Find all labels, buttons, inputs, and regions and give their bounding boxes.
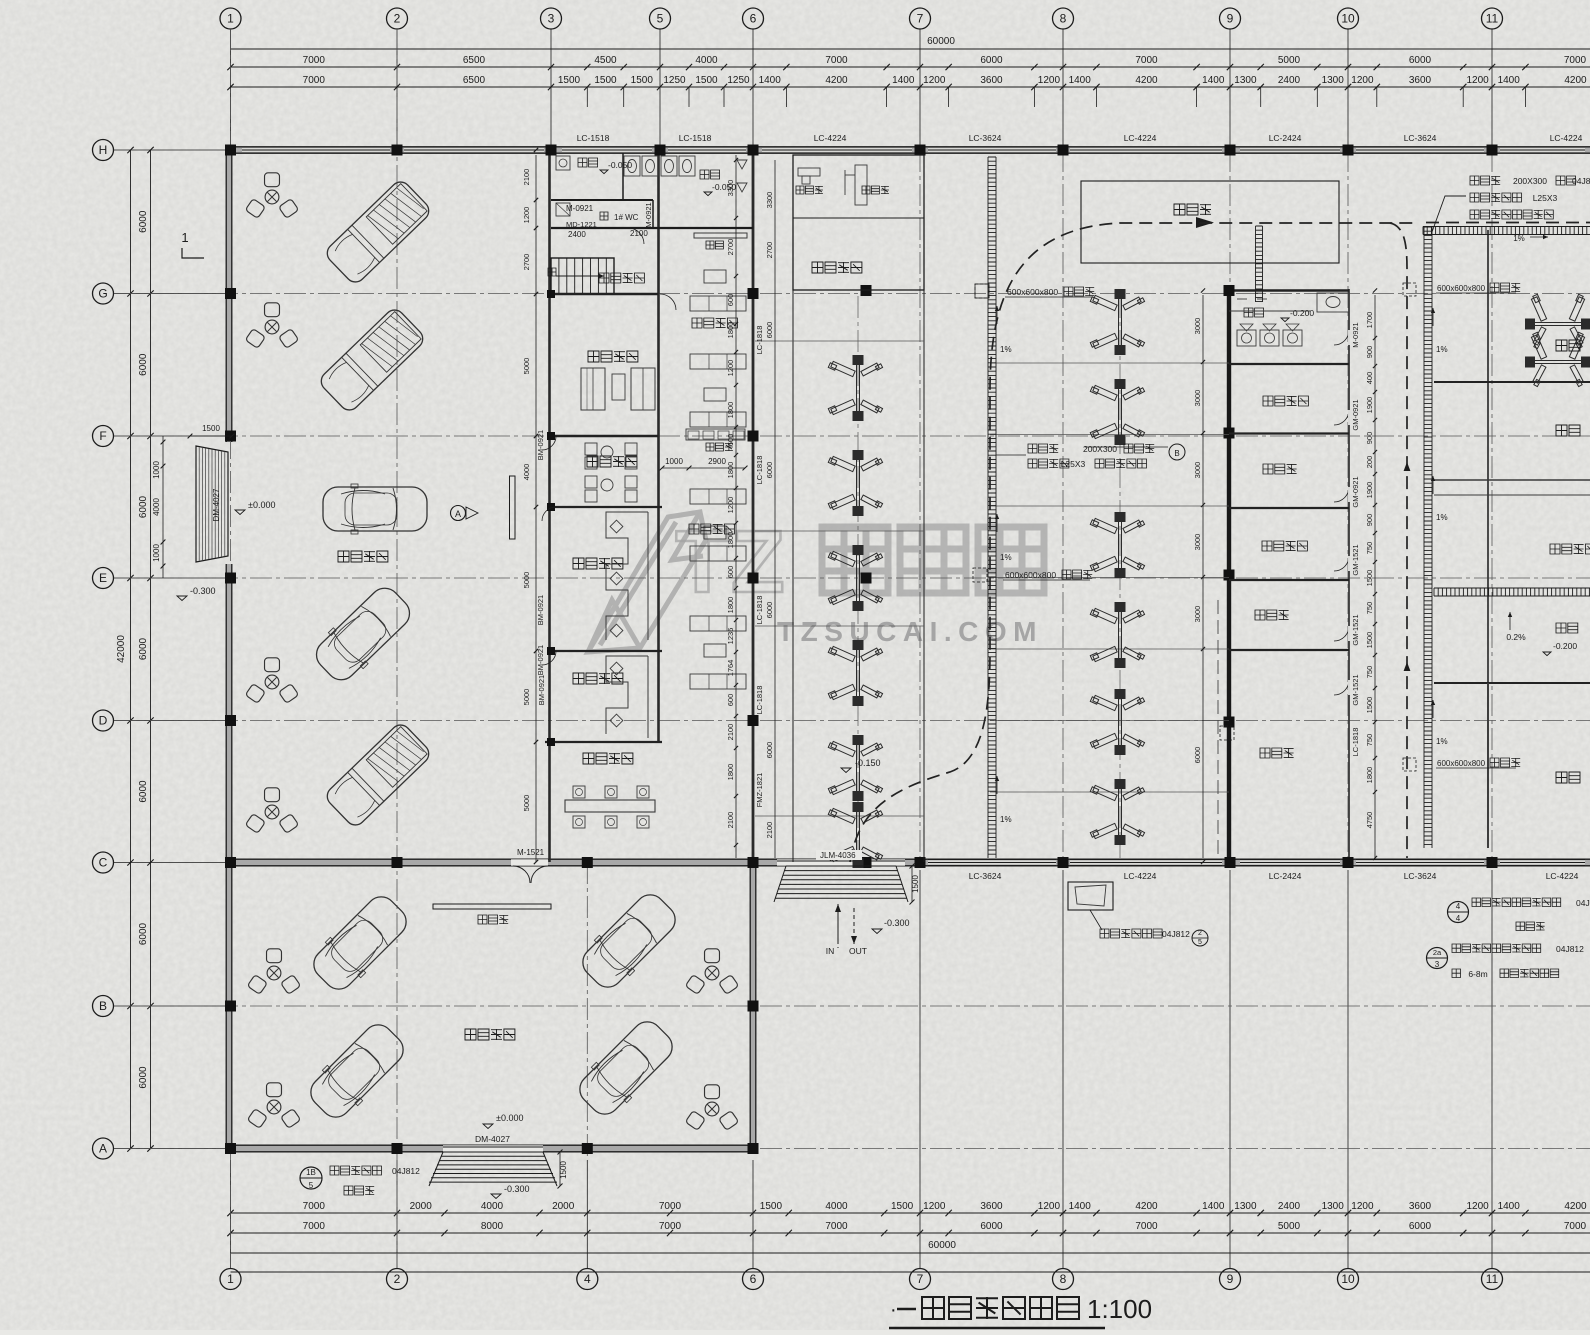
svg-text:7000: 7000: [1135, 1221, 1158, 1232]
top dimension boundary ticks: [227, 64, 233, 70]
tool room label: [1263, 464, 1297, 474]
svg-text:-0.200: -0.200: [1553, 641, 1577, 651]
svg-text:G: G: [98, 287, 107, 301]
svg-text:6000: 6000: [765, 322, 774, 339]
svg-text:2400: 2400: [1278, 75, 1301, 86]
svg-text:LC-1518: LC-1518: [679, 133, 712, 143]
assembly repair label: [1262, 541, 1307, 551]
top exterior wall: [226, 147, 1590, 154]
svg-text:1B: 1B: [306, 1168, 316, 1177]
svg-text:600x600x800: 600x600x800: [1005, 570, 1056, 580]
svg-text:2a: 2a: [1433, 948, 1442, 957]
svg-text:04J812: 04J812: [1556, 944, 1584, 954]
svg-text:6000: 6000: [980, 1221, 1003, 1232]
test line rectangle: [1081, 181, 1339, 263]
svg-text:600x600x800: 600x600x800: [1437, 284, 1486, 293]
top wall windows: [242, 147, 390, 153]
column line 6 glass wall: [752, 150, 755, 862]
bottom wall of lower showroom: [226, 1145, 756, 1152]
svg-text:1: 1: [227, 12, 234, 26]
svg-text:5000: 5000: [522, 572, 531, 589]
wc labels: [578, 158, 598, 167]
svg-text:3000: 3000: [1193, 318, 1202, 335]
svg-text:3300: 3300: [726, 180, 735, 197]
svg-text:4750: 4750: [1365, 812, 1374, 829]
service room strip west wall x1229: [1227, 289, 1231, 862]
svg-text:5000: 5000: [522, 689, 531, 706]
svg-text:7000: 7000: [1564, 55, 1587, 66]
svg-text:B: B: [1174, 449, 1179, 458]
svg-text:1700: 1700: [1365, 312, 1374, 329]
toilet stalls: [624, 156, 640, 176]
svg-text:1500: 1500: [1365, 697, 1374, 714]
svg-text:04J812: 04J812: [392, 1166, 420, 1176]
svg-text:LC-1518: LC-1518: [577, 133, 610, 143]
svg-text:4200: 4200: [1564, 75, 1587, 86]
svg-text:7000: 7000: [303, 1201, 326, 1212]
svg-text:7000: 7000: [1564, 1221, 1587, 1232]
svg-text:GM-0921: GM-0921: [1351, 399, 1360, 430]
showroom car 1: [323, 178, 433, 286]
svg-text:1400: 1400: [1498, 75, 1521, 86]
svg-text:1000: 1000: [665, 457, 683, 466]
svg-text:2700: 2700: [522, 254, 531, 271]
south wall windows: [928, 860, 1056, 866]
svg-text:4000: 4000: [522, 464, 531, 481]
svg-text:4000: 4000: [481, 1201, 504, 1212]
top overall dimension 60000: [231, 48, 1590, 50]
svg-text:9: 9: [1227, 12, 1234, 26]
svg-text:6000: 6000: [765, 742, 774, 759]
svg-text:1200: 1200: [726, 360, 735, 377]
svg-text:600x600x800: 600x600x800: [1007, 287, 1058, 297]
svg-text:9: 9: [1227, 1272, 1234, 1286]
rest room label: [1263, 396, 1308, 406]
reception counter and chairs: [565, 800, 655, 812]
column markers row C: [225, 857, 236, 868]
svg-text:1800: 1800: [1365, 767, 1374, 784]
svg-text:2100: 2100: [726, 812, 735, 829]
svg-text:TZSUCAI.COM: TZSUCAI.COM: [777, 616, 1043, 647]
svg-text:3: 3: [1435, 960, 1440, 969]
strip room dimension line x536: [535, 155, 537, 862]
drain note mid: [1028, 444, 1058, 453]
svg-text:60000: 60000: [927, 36, 955, 47]
svg-text:750: 750: [1365, 734, 1374, 747]
svg-text:1900: 1900: [1365, 482, 1374, 499]
svg-text:DM-4027: DM-4027: [475, 1134, 510, 1144]
customer lounge sofas: [581, 368, 605, 410]
lower chair groups: [247, 949, 301, 995]
svg-text:1200: 1200: [1466, 75, 1489, 86]
svg-text:2900: 2900: [708, 457, 726, 466]
grid bubbles bottom: [220, 1269, 241, 1290]
svg-text:1500: 1500: [1365, 632, 1374, 649]
service strip room walls: [1229, 363, 1349, 365]
svg-text:200: 200: [1365, 456, 1374, 469]
svg-text:4200: 4200: [1564, 1201, 1587, 1212]
wc sinks: [556, 156, 570, 170]
lower showroom cars: [306, 889, 415, 998]
svg-text:FMZ-1821: FMZ-1821: [755, 773, 764, 808]
strip wall junction squares: [547, 290, 555, 298]
column markers top wall: [225, 145, 236, 156]
horizontal grid centerlines: [114, 293, 1590, 295]
showroom label xin che zhan ting: [338, 551, 388, 562]
svg-text:GM-0921: GM-0921: [1351, 476, 1360, 507]
showroom office strip east wall: [657, 150, 660, 742]
svg-text:IN: IN: [826, 946, 835, 956]
svg-text:M-1521: M-1521: [517, 848, 545, 857]
svg-text:1400: 1400: [892, 75, 915, 86]
east slope arrows: [1432, 308, 1434, 326]
svg-text:1400: 1400: [1498, 1201, 1521, 1212]
svg-text:3600: 3600: [980, 75, 1003, 86]
svg-text:1200: 1200: [1038, 75, 1061, 86]
svg-text:1200: 1200: [1038, 1201, 1061, 1212]
service strip doors: [1334, 330, 1349, 345]
svg-text:4: 4: [1456, 914, 1461, 923]
svg-text:1: 1: [181, 230, 188, 245]
svg-text:6000: 6000: [138, 495, 149, 518]
svg-text:1300: 1300: [1322, 1201, 1345, 1212]
svg-text:TZ: TZ: [675, 512, 787, 611]
showroom car 3: [323, 484, 427, 534]
svg-text:2100: 2100: [765, 822, 774, 839]
svg-text:BM-0921: BM-0921: [536, 595, 545, 625]
short trench x1259: [1255, 226, 1257, 302]
lower showroom label: [465, 1029, 515, 1040]
svg-text:1200: 1200: [522, 207, 531, 224]
bottom dimension line spans: [231, 1232, 1590, 1234]
grid bubbles top: [220, 8, 241, 29]
svg-text:7000: 7000: [1135, 55, 1158, 66]
svg-text:7000: 7000: [303, 55, 326, 66]
service room strip east wall x1349: [1348, 289, 1350, 862]
svg-text:M-0921: M-0921: [644, 202, 653, 227]
svg-text:6500: 6500: [463, 55, 486, 66]
svg-text:04J8: 04J8: [1576, 898, 1590, 908]
tyre machine: [855, 165, 867, 205]
svg-text:B: B: [99, 999, 107, 1013]
test line arrow: [1196, 217, 1214, 228]
paint room walls: [1487, 683, 1489, 848]
svg-text:1250: 1250: [663, 75, 686, 86]
grid bubbles left letters: [93, 140, 114, 161]
left overall dimension 42000: [130, 150, 132, 1149]
svg-text:GM-1521: GM-1521: [1351, 614, 1360, 645]
svg-text:C: C: [99, 856, 108, 870]
svg-text:4000: 4000: [695, 55, 718, 66]
svg-text:11: 11: [1486, 1272, 1499, 1286]
svg-text:5: 5: [657, 12, 664, 26]
test line label: [1174, 204, 1211, 215]
east lifts: [1525, 294, 1590, 348]
roller door DM-4027: [196, 446, 228, 562]
svg-text:LC-2424: LC-2424: [1269, 133, 1302, 143]
air compressor label: [1255, 610, 1289, 620]
sales meeting room label: [587, 456, 637, 467]
after-sales lounge label: [692, 318, 737, 328]
sales office 2 label: [573, 673, 623, 684]
svg-text:LC-1818: LC-1818: [755, 326, 764, 355]
svg-text:1%: 1%: [1513, 234, 1525, 243]
svg-text:1500: 1500: [559, 1161, 568, 1179]
svg-text:4500: 4500: [594, 55, 617, 66]
main entrance steps: [786, 865, 896, 867]
svg-text:1400: 1400: [1202, 1201, 1225, 1212]
svg-text:LC-1818: LC-1818: [755, 596, 764, 625]
svg-text:1000: 1000: [152, 544, 161, 562]
svg-text:6000: 6000: [138, 780, 149, 803]
svg-text:600x600x800: 600x600x800: [1437, 759, 1486, 768]
svg-text:6000: 6000: [1409, 1221, 1432, 1232]
stair flight: [551, 258, 614, 294]
east area wall x1488: [1487, 230, 1489, 848]
svg-text:7: 7: [917, 1272, 924, 1286]
svg-text:1764: 1764: [726, 660, 735, 677]
vertical grid centerlines: [230, 29, 232, 1268]
svg-text:1200: 1200: [1466, 1201, 1489, 1212]
svg-text:6500: 6500: [463, 75, 486, 86]
internet corner desk: [686, 429, 745, 440]
drain note top right: [1470, 176, 1500, 185]
left exterior wall: [226, 150, 232, 442]
sales office 2 desks: [606, 656, 648, 738]
wall under stairs row G: [551, 293, 658, 295]
drain trench vertical x992: [987, 157, 989, 858]
svg-text:750: 750: [1365, 666, 1374, 679]
showroom car 5: [323, 721, 433, 829]
svg-text:1236: 1236: [726, 628, 735, 645]
svg-text:M-0921: M-0921: [566, 204, 594, 213]
svg-text:2700: 2700: [726, 239, 735, 256]
sand pit label top: [975, 284, 989, 298]
svg-text:8000: 8000: [481, 1221, 504, 1232]
in out arrows: [837, 904, 839, 940]
svg-text:600: 600: [726, 434, 735, 447]
svg-text:6: 6: [750, 12, 757, 26]
svg-text:1500: 1500: [891, 1201, 914, 1212]
left grid extension lines: [114, 149, 226, 151]
svg-text:3600: 3600: [1409, 75, 1432, 86]
svg-text:10: 10: [1341, 12, 1355, 26]
svg-text:7000: 7000: [659, 1201, 682, 1212]
svg-text:1: 1: [227, 1272, 234, 1286]
svg-text:2100: 2100: [630, 229, 648, 238]
svg-text:6000: 6000: [980, 55, 1003, 66]
sand pit label east bottom: [1403, 758, 1416, 771]
column markers left wall: [225, 288, 236, 299]
svg-text:1250: 1250: [727, 75, 750, 86]
svg-text:3000: 3000: [1193, 534, 1202, 551]
svg-text:GM-1521: GM-1521: [1351, 544, 1360, 575]
svg-text:10: 10: [1341, 1272, 1355, 1286]
svg-text:1500: 1500: [594, 75, 617, 86]
svg-text:1%: 1%: [1000, 345, 1012, 354]
svg-text:1500: 1500: [1365, 570, 1374, 587]
svg-text:2000: 2000: [410, 1201, 433, 1212]
car lifts column 2: [1090, 289, 1144, 355]
svg-text:3300: 3300: [765, 192, 774, 209]
svg-text:1500: 1500: [695, 75, 718, 86]
svg-text:400: 400: [1365, 372, 1374, 385]
service bay lines: [792, 290, 794, 862]
svg-text:1500: 1500: [911, 875, 920, 893]
showroom office strip west wall: [548, 150, 551, 862]
svg-text:1400: 1400: [1069, 75, 1092, 86]
svg-text:600: 600: [726, 566, 735, 579]
svg-text:3000: 3000: [1193, 606, 1202, 623]
svg-text:2000: 2000: [552, 1201, 575, 1212]
svg-text:LC-1818: LC-1818: [755, 456, 764, 485]
sand pit mid-south dashed line: [1217, 600, 1219, 858]
entrance steps south: [443, 1151, 543, 1153]
svg-text:8: 8: [1060, 12, 1067, 26]
svg-text:F: F: [99, 429, 106, 443]
svg-text:6000: 6000: [138, 922, 149, 945]
svg-text:4200: 4200: [1135, 75, 1158, 86]
svg-text:900: 900: [1365, 514, 1374, 527]
svg-text:1200: 1200: [1351, 75, 1374, 86]
bottom overall dimension 60000: [231, 1252, 1590, 1254]
svg-text:6000: 6000: [138, 1066, 149, 1089]
wheel alignment room label: [812, 262, 862, 273]
svg-text:4200: 4200: [825, 75, 848, 86]
svg-text:5000: 5000: [522, 358, 531, 375]
svg-text:·: ·: [890, 1299, 897, 1321]
svg-text:LC-1818: LC-1818: [755, 686, 764, 715]
svg-text:A: A: [99, 1142, 107, 1156]
svg-text:42000: 42000: [116, 635, 127, 663]
svg-text:2400: 2400: [1278, 1201, 1301, 1212]
svg-text:LC-4224: LC-4224: [1550, 133, 1583, 143]
svg-text:200X300: 200X300: [1083, 444, 1117, 454]
svg-text:1800: 1800: [726, 402, 735, 419]
wheel balancer: [798, 168, 820, 176]
svg-text:3000: 3000: [1193, 462, 1202, 479]
strip wall y742: [545, 741, 662, 743]
svg-text:7000: 7000: [303, 1221, 326, 1232]
svg-text:GM-1521: GM-1521: [1351, 674, 1360, 705]
service strip dim lines: [1202, 295, 1204, 858]
svg-text:1# WC: 1# WC: [614, 213, 639, 222]
svg-text:2: 2: [394, 1272, 401, 1286]
test route dashed path: [850, 223, 1418, 862]
svg-text:6000: 6000: [138, 210, 149, 233]
left row dimension line 6000s: [150, 150, 152, 1149]
inner dim line col6 second: [774, 160, 776, 858]
svg-text:LC-4224: LC-4224: [1546, 871, 1579, 881]
svg-text:5000: 5000: [522, 795, 531, 812]
svg-text:5: 5: [1198, 939, 1202, 946]
left dimension ticks: [127, 147, 133, 153]
svg-text:M-0921: M-0921: [1351, 322, 1360, 347]
svg-text:LC-3624: LC-3624: [1404, 871, 1437, 881]
svg-text:750: 750: [1365, 602, 1374, 615]
svg-text:7000: 7000: [825, 1221, 848, 1232]
svg-text:200X300: 200X300: [1513, 176, 1547, 186]
svg-text:D: D: [99, 714, 108, 728]
row F wall in strip: [551, 435, 658, 437]
svg-text:5000: 5000: [1278, 55, 1301, 66]
svg-text:11: 11: [1486, 12, 1499, 26]
svg-text:BM-0921: BM-0921: [536, 430, 545, 460]
east trench vertical: [1423, 227, 1425, 848]
svg-text:60000: 60000: [928, 1240, 956, 1251]
svg-text:2100: 2100: [522, 169, 531, 186]
svg-text:LC-3624: LC-3624: [969, 871, 1002, 881]
column markers row A: [225, 1143, 236, 1154]
tv cabinet: [694, 233, 747, 238]
urinals male wc: [737, 160, 747, 169]
svg-text:1300: 1300: [1234, 1201, 1257, 1212]
sales meeting tables: [601, 446, 613, 458]
grease trap detail: [1068, 882, 1113, 910]
column markers service strip: [1224, 285, 1235, 296]
svg-text:LC-3624: LC-3624: [969, 133, 1002, 143]
svg-text:L25X3: L25X3: [1533, 193, 1558, 203]
sand pit label east top: [1403, 283, 1416, 296]
svg-text:1300: 1300: [1322, 75, 1345, 86]
svg-text:1000: 1000: [152, 461, 161, 479]
top grid extension lines: [230, 29, 232, 147]
svg-text:JLM-4036: JLM-4036: [820, 851, 856, 860]
svg-text:LC-4224: LC-4224: [1124, 871, 1157, 881]
svg-text:6000: 6000: [765, 462, 774, 479]
svg-text:1%: 1%: [1436, 737, 1448, 746]
svg-text:4000: 4000: [152, 498, 161, 516]
svg-text:-0.050: -0.050: [608, 160, 632, 170]
svg-text:900: 900: [1365, 346, 1374, 359]
svg-text:6-8m: 6-8m: [1468, 969, 1487, 979]
car lifts column 1: [828, 355, 882, 421]
service strip east dim line: [1374, 295, 1376, 858]
svg-text:LC-4224: LC-4224: [1124, 133, 1157, 143]
detail bubble 4/4: [1448, 902, 1469, 923]
svg-text:DM-4027: DM-4027: [212, 488, 221, 521]
svg-text:7000: 7000: [303, 75, 326, 86]
svg-text:1%: 1%: [1000, 815, 1012, 824]
svg-text:1500: 1500: [558, 75, 581, 86]
svg-text:8: 8: [1060, 1272, 1067, 1286]
svg-text:6: 6: [750, 1272, 757, 1286]
svg-text:LC-3624: LC-3624: [1404, 133, 1437, 143]
bottom dimension sub line: [231, 1212, 1590, 1214]
svg-text:LC-4224: LC-4224: [814, 133, 847, 143]
inner dim line col6: [735, 155, 737, 858]
2#WC room: [1244, 308, 1264, 317]
svg-text:1800: 1800: [726, 462, 735, 479]
svg-text:6000: 6000: [1409, 55, 1432, 66]
svg-text:±0.000: ±0.000: [496, 1113, 523, 1123]
svg-text:-0.150: -0.150: [855, 758, 881, 768]
lift column centerlines: [857, 296, 859, 858]
svg-text:4000: 4000: [825, 1201, 848, 1212]
svg-text:1800: 1800: [726, 532, 735, 549]
svg-text:7000: 7000: [825, 55, 848, 66]
sales office 1 desks: [606, 512, 648, 640]
door arcs strip: [542, 436, 556, 450]
svg-text:1500: 1500: [202, 424, 220, 433]
svg-text:1300: 1300: [1234, 75, 1257, 86]
svg-text:1800: 1800: [726, 597, 735, 614]
svg-text:3600: 3600: [1409, 1201, 1432, 1212]
sales office 1 label: [573, 558, 623, 569]
bottom grid extension lines: [230, 1160, 232, 1268]
parts storage label: [1260, 748, 1294, 758]
svg-text:0.2%: 0.2%: [1506, 632, 1526, 642]
